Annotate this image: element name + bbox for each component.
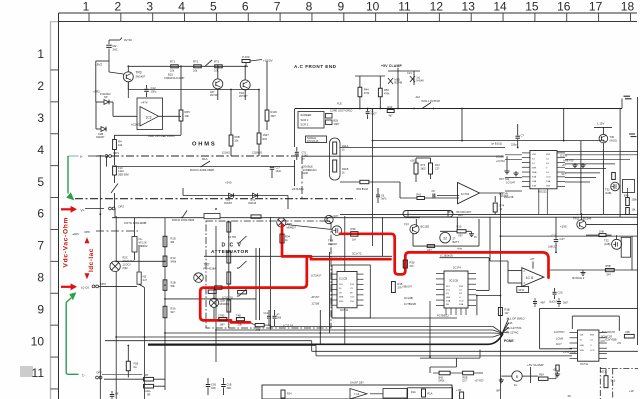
screen small boxes (326, 114, 333, 119)
op-amp IC6 input wires (508, 270, 522, 272)
svg-text:0uF2: 0uF2 (381, 198, 387, 201)
svg-text:10k: 10k (170, 69, 175, 73)
divider resistor R1D top (163, 236, 167, 247)
svg-text:D3A: D3A (546, 180, 551, 183)
svg-text:1NA: 1NA (532, 180, 537, 183)
wire x632 stub (631, 236, 633, 270)
svg-text:OC?11: OC?11 (580, 362, 589, 366)
IC3 loop wires above package (572, 315, 619, 317)
green arrowhead LO up (69, 292, 76, 300)
divider resistor R1A (163, 306, 167, 318)
svg-text:C4 T84: C4 T84 (228, 236, 236, 239)
wire range row y166.5 (113, 166, 295, 168)
ground on RAG wire (582, 271, 584, 273)
wire bus y140.6 (373, 140, 602, 142)
svg-text:F1B: F1B (134, 362, 139, 366)
resistor R34 on red path (280, 234, 284, 243)
wire OHMS top rail y66.3 (128, 65, 248, 67)
svg-text:+5V2: +5V2 (410, 160, 417, 163)
svg-text:BATT: BATT (453, 240, 460, 244)
svg-text:+Ha: +Ha (457, 247, 462, 251)
svg-text:2u?: 2u? (143, 278, 148, 282)
svg-text:R1B: R1B (505, 308, 510, 312)
svg-text:0N RAG 2: 0N RAG 2 (572, 276, 585, 280)
svg-text:54?: 54? (607, 273, 612, 277)
wire vertical x382.5 (382, 217, 384, 256)
svg-text:1N4007: 1N4007 (96, 136, 105, 139)
misc bottom resistor R14 (281, 390, 285, 398)
resistor R43 (387, 110, 394, 113)
svg-text:C17: C17 (552, 234, 557, 238)
wire TR14 top stub (415, 219, 417, 226)
svg-text:9M: 9M (171, 240, 175, 244)
filter box on v+ bus (204, 214, 220, 219)
wire stub y358 right (420, 357, 480, 359)
svg-text:C2B: C2B (625, 331, 630, 334)
wire route y345.5 (148, 345, 316, 347)
transistor TR11 (577, 220, 586, 229)
resistor R11A (333, 142, 337, 154)
diode D4 (229, 193, 234, 198)
resistor R71 (171, 65, 179, 68)
svg-text:BC182: BC182 (421, 225, 430, 229)
svg-text:6: 6 (37, 207, 44, 221)
wire long bus y217.7 left (112, 217, 420, 219)
svg-text:R43: R43 (388, 105, 393, 109)
svg-text:1C12M: 1C12M (496, 156, 504, 159)
wire vertical x320 lower (319, 310, 321, 345)
resistor below IC10 (493, 203, 497, 212)
wire mA top y261.3 (116, 260, 165, 262)
svg-text:V-: V- (590, 345, 592, 347)
switch on bus right (183, 211, 187, 217)
svg-text:10u0: 10u0 (276, 170, 282, 173)
capacitor C17 (555, 217, 557, 239)
wire fan line1 y326.5 (271, 326, 493, 328)
resistor R50b lower (360, 180, 369, 183)
wire left pins to x505 (505, 154, 522, 156)
wire long bus y214.4 right (340, 213, 638, 215)
svg-text:1C 6: 1C 6 (526, 276, 534, 280)
svg-text:470k: 470k (364, 92, 370, 95)
ground bottom mid (500, 378, 502, 380)
svg-text:R5B: R5B (606, 264, 611, 268)
svg-text:27k: 27k (398, 286, 403, 290)
svg-text:37US B-45: 37US B-45 (307, 141, 319, 143)
capacitor C9 220p (517, 128, 519, 135)
resistor R21 redraw over red (219, 318, 227, 321)
wire diode rail (95, 102, 97, 129)
wire vertical x106 DP1 (106, 156, 108, 167)
op-amp IC10 triangle (458, 183, 480, 204)
svg-text:R14: R14 (287, 393, 292, 396)
resistor R19 (208, 290, 216, 293)
resistor R30 on red path (351, 232, 358, 237)
wire to +10/0V (250, 60, 262, 62)
svg-text:R1A: R1A (202, 157, 208, 161)
transistor R27 left edge (325, 215, 333, 223)
svg-text:V-: V- (546, 167, 548, 169)
resistor K1A (422, 389, 426, 397)
svg-text:24 DUM 1: 24 DUM 1 (292, 187, 304, 191)
capacitor near clamp box b (557, 301, 561, 303)
capacitor C1B a (207, 378, 209, 384)
svg-text:9: 9 (337, 0, 344, 14)
big rect bottom mid (408, 388, 453, 399)
wire route corner x316 (315, 346, 317, 356)
svg-text:11: 11 (398, 0, 411, 14)
svg-text:1CA/B: 1CA/B (556, 337, 563, 340)
resistor R41 feedback (417, 197, 425, 200)
wire vertical pair x256 (255, 248, 257, 320)
resistor R7 (144, 377, 154, 381)
resistor R72 (194, 65, 202, 68)
svg-text:3: 3 (37, 111, 44, 125)
svg-text:1N4148: 1N4148 (248, 203, 257, 205)
wire vertical x372.5 (372, 109, 374, 247)
svg-text:D13: D13 (458, 214, 463, 217)
svg-text:C2?: C2? (435, 167, 440, 170)
svg-text:R2C: R2C (123, 256, 128, 260)
battery test meter circle (440, 232, 451, 243)
svg-text:R30: R30 (410, 261, 415, 265)
svg-text:10: 10 (366, 0, 380, 14)
wire right edge x637.5 (637, 97, 639, 345)
wire divider tap y298.9 (165, 298, 256, 300)
resistor R05 (179, 110, 183, 121)
svg-text:1C12/1B: 1C12/1B (504, 196, 514, 199)
svg-text:2N140?: 2N140? (136, 75, 146, 79)
svg-text:D1?: D1? (463, 380, 468, 383)
svg-text:R34: R34 (285, 235, 290, 239)
svg-text:CO2: CO2 (459, 300, 464, 302)
svg-text:+1P: +1P (629, 389, 634, 393)
svg-text:2N?40?: 2N?40? (239, 95, 248, 98)
resistor R07 (257, 133, 261, 144)
svg-text:+3P 0V?: +3P 0V? (311, 297, 321, 299)
terminal DP3 (92, 285, 95, 288)
resistor R73 (215, 65, 223, 68)
wire IC3 out (159, 115, 182, 117)
diode C23 (96, 128, 101, 130)
resistor P-100 (242, 60, 250, 63)
svg-text:I+: I+ (80, 155, 83, 159)
wire vertical x457 (456, 217, 458, 230)
svg-text:MN4002: MN4002 (220, 302, 230, 306)
svg-text:V-: V- (459, 297, 461, 299)
svg-text:1(C)4/C1R: 1(C)4/C1R (601, 336, 613, 339)
svg-text:Idc-Iac: Idc-Iac (88, 248, 95, 272)
wire OHMS bottom rail y135.3 (115, 134, 182, 136)
svg-text:2: 2 (115, 0, 122, 14)
capacitor C10 on range row (270, 166, 275, 168)
svg-text:R1A: R1A (411, 391, 416, 394)
svg-text:1-: 1- (82, 374, 85, 378)
svg-text:TR6: TR6 (328, 239, 334, 243)
svg-text:ATTENUATOR: ATTENUATOR (211, 249, 249, 255)
IC4 package IC1CB (444, 271, 468, 308)
wire vertical x622 stub (621, 99, 623, 109)
border frame scan edge (gray) (50, 22, 52, 399)
svg-text:S1?: S1? (562, 173, 567, 176)
svg-text:1N6: 1N6 (277, 317, 282, 320)
svg-text:ALL OF SM1G: ALL OF SM1G (507, 317, 525, 321)
svg-text:R50: R50 (384, 88, 389, 92)
svg-text:8: 8 (37, 271, 44, 285)
svg-text:T4B: T4B (236, 313, 241, 317)
resistor R22 on Lo rail (236, 318, 244, 321)
transistor TR1 (213, 79, 223, 89)
wire route corner x311.7 (311, 341, 313, 352)
svg-text:2k0?: 2k0? (563, 302, 569, 305)
connector symbol right x632 (629, 133, 635, 135)
transistor TR13 fet (612, 239, 622, 249)
svg-text:10: 10 (31, 334, 45, 348)
svg-text:C4?: C4? (560, 237, 566, 241)
svg-text:+1W: +1W (456, 389, 462, 392)
svg-text:90k: 90k (171, 284, 176, 288)
resistor R18 between packages (392, 282, 396, 293)
svg-text:5: 5 (210, 0, 217, 14)
svg-text:C14: C14 (264, 312, 269, 315)
svg-text:3C1+T2: 3C1+T2 (352, 252, 362, 256)
svg-text:MN4007: MN4007 (328, 243, 338, 246)
resistor pair on bus y216 (251, 215, 261, 218)
svg-text:940k: 940k (171, 259, 177, 263)
resistor GALL (144, 384, 154, 388)
wire vertical x476.9 (476, 295, 478, 315)
svg-text:AC240?: AC240? (131, 122, 141, 126)
switch below R6 (114, 175, 116, 183)
svg-text:16: 16 (557, 0, 571, 14)
svg-text:+10/0V: +10/0V (263, 59, 273, 63)
svg-text:R5A: R5A (539, 374, 544, 377)
wire below OC111 y318 (332, 317, 457, 319)
svg-text:1N8: 1N8 (599, 229, 604, 233)
svg-text:▴AFC: ▴AFC (73, 232, 80, 236)
wire vertical x563.7 (563, 109, 565, 141)
fuse F1 body (137, 272, 141, 284)
svg-text:14: 14 (493, 0, 507, 14)
svg-text:2A2: 2A2 (113, 47, 118, 51)
wire vertical x116.2 mA rail (115, 216, 117, 261)
svg-text:V+: V+ (81, 208, 85, 212)
attenuator resistor R15 (227, 272, 231, 284)
svg-text:R30: R30 (351, 227, 356, 231)
svg-text:13: 13 (462, 0, 476, 14)
svg-text:R?1: R?1 (214, 60, 220, 64)
svg-text:7: 7 (37, 239, 44, 253)
svg-text:1C?2/4?: 1C?2/4? (506, 182, 516, 185)
box 3P11 below IC6 (517, 287, 529, 293)
red highlight path segment down-left loop (200, 257, 307, 322)
red highlight path segment TR5 branch (282, 225, 391, 260)
svg-text:MN4007: MN4007 (287, 226, 297, 229)
ruler left ticks (51, 69, 59, 71)
svg-text:1C22 T4: 1C22 T4 (283, 324, 293, 328)
svg-text:R7: R7 (145, 373, 149, 377)
svg-text:7-12: 7-12 (354, 392, 360, 396)
wire vertical x490 (489, 217, 491, 261)
svg-text:GA1N? DE?: GA1N? DE? (350, 382, 364, 385)
resistor R55A (255, 324, 264, 327)
attenuator switch contacts (239, 236, 247, 243)
svg-text:(W1G): (W1G) (610, 139, 618, 142)
svg-text:DOFO 1003-0903: DOFO 1003-0903 (172, 218, 195, 222)
svg-text:+C1?10: +C1?10 (496, 160, 505, 163)
svg-text:220p: 220p (511, 143, 517, 146)
diode C13 cross (410, 76, 415, 82)
svg-text:1M?: 1M? (220, 322, 226, 326)
section boundary vertical x302 (301, 156, 303, 199)
capacitor C1B b (223, 378, 225, 384)
terminal DP2 (109, 207, 112, 210)
svg-text:DP8: DP8 (85, 230, 91, 234)
svg-text:C13: C13 (407, 72, 412, 75)
svg-text:1C?2A/1?: 1C?2A/1? (311, 275, 322, 278)
resistor B42 (439, 371, 450, 375)
svg-text:L0 C0: L0 C0 (81, 286, 89, 290)
transistor TR6 fet (332, 226, 342, 236)
svg-text:CALL: CALL (145, 389, 152, 393)
svg-text:QuO1?: QuO1? (549, 301, 558, 304)
fuse F1 upper (132, 237, 137, 253)
svg-text:CO2: CO2 (590, 350, 595, 352)
wire x114.5 down to switch (114, 150, 116, 166)
wire bus y147.5 (340, 147, 505, 149)
attenuator resistor R16b (227, 300, 231, 312)
package bottom pin wires (445, 308, 447, 315)
svg-text:YB?: YB? (458, 234, 463, 237)
svg-text:DP?: DP? (97, 371, 103, 375)
svg-text:SK3: SK3 (611, 380, 616, 383)
svg-text:R18: R18 (398, 282, 403, 286)
wire main AC bus y108.5 (295, 108, 622, 110)
resistor R20 (238, 291, 247, 294)
svg-text:R10: R10 (457, 224, 462, 228)
svg-text:R1A: R1A (171, 307, 176, 311)
svg-text:100k: 100k (632, 199, 638, 202)
resistor R22 redraw over red (236, 318, 244, 321)
svg-text:SHA: SHA (339, 296, 344, 299)
connector symbol top right (624, 95, 631, 97)
svg-text:C?4: C?4 (251, 199, 256, 202)
svg-text:33k?: 33k? (271, 115, 277, 118)
svg-text:10k: 10k (118, 143, 123, 147)
wire battery row y246.1 (413, 245, 479, 247)
red arrowhead up Idc (85, 237, 90, 243)
svg-text:(A1B): (A1B) (604, 243, 611, 246)
resistor R31 on red jog (215, 286, 223, 290)
svg-text:R05: R05 (185, 110, 191, 114)
svg-text:4C1/4B: 4C1/4B (404, 296, 413, 300)
resistor R5B (463, 371, 474, 375)
resistor R32 redraw over red (403, 260, 407, 268)
attenuator ladder rail (228, 221, 230, 328)
clamp rail (388, 70, 420, 72)
svg-text:R50 BV34: R50 BV34 (357, 188, 369, 191)
svg-text:(or B1G2): (or B1G2) (491, 143, 502, 146)
section boundary OHMS (dash-dot) (96, 155, 302, 157)
svg-text:DR0L: DR0L (439, 380, 446, 383)
transistor TR14 BC182 (410, 225, 419, 234)
current source meter circle (512, 371, 522, 381)
wire top right y151.4 (557, 150, 638, 152)
svg-text:R27: R27 (334, 214, 339, 218)
svg-text:S1NGLE: S1NGLE (307, 138, 317, 140)
svg-text:SCREEN: SCREEN (301, 113, 312, 117)
svg-text:DP2: DP2 (101, 282, 107, 286)
resistor R4 (113, 140, 117, 150)
svg-text:34D: 34D (211, 387, 216, 390)
wire OHMS left edge x95.8 (95, 61, 97, 102)
svg-text:3: 3 (146, 0, 153, 14)
capacitor C2 top-left (108, 40, 110, 44)
svg-text:3R: 3R (147, 392, 150, 396)
svg-text:R11A: R11A (342, 144, 349, 148)
svg-text:R0B: R0B (235, 135, 240, 139)
svg-text:+5?: +5? (562, 164, 567, 167)
resistor R11B (333, 160, 337, 172)
svg-text:C?: C? (521, 134, 525, 138)
svg-text:+C3V?/1BB: +C3V?/1BB (605, 340, 618, 342)
capacitor C6 (377, 188, 379, 194)
svg-text:C8: C8 (115, 392, 119, 396)
wire route y355.9 (316, 355, 572, 357)
green routing line down to V+ (67, 156, 69, 194)
resistor R32 (403, 260, 407, 268)
ground near R10 (471, 232, 473, 234)
svg-text:CO?O 1003-900B: CO?O 1003-900B (124, 221, 147, 225)
svg-text:FLE: FLE (337, 102, 342, 106)
resistor R21 on Lo rail (219, 318, 227, 321)
svg-text:CORGPOLO-0O8T: CORGPOLO-0O8T (164, 77, 185, 80)
svg-text:R1C: R1C (171, 256, 176, 260)
svg-text:0V: 0V (474, 236, 477, 239)
svg-text:S1A: S1A (532, 176, 537, 179)
svg-text:+29S: +29S (560, 225, 567, 229)
IC7 block rect (262, 385, 452, 399)
svg-text:18: 18 (621, 0, 635, 14)
svg-text:1N6?: 1N6? (334, 123, 340, 126)
svg-text:1: 1 (83, 0, 90, 14)
svg-text:S1A: S1A (580, 349, 585, 352)
svg-text:+5V CLAMP: +5V CLAMP (527, 363, 544, 367)
svg-text:CORE LOO?-GR1D: CORE LOO?-GR1D (330, 110, 353, 113)
svg-text:T30: T30 (610, 135, 615, 139)
svg-text:(A1B): (A1B) (605, 192, 612, 195)
capacitor C25 below IC6 (554, 288, 556, 292)
transistor TR2 (240, 80, 250, 90)
svg-text:1C1B2k/26: 1C1B2k/26 (440, 253, 453, 257)
svg-text:1.15V: 1.15V (597, 122, 604, 126)
svg-text:S1B: S1B (532, 186, 537, 188)
svg-text:N3: N3 (143, 275, 147, 279)
svg-text:4k7: 4k7 (389, 115, 394, 118)
wire vertical x345 (344, 216, 346, 345)
svg-text:1C?10: 1C?10 (461, 192, 470, 196)
fuse F1B (126, 361, 130, 371)
capacitor C8 bottom left (111, 391, 113, 394)
svg-text:SH 127?OS: SH 127?OS (507, 326, 522, 330)
svg-text:P-100: P-100 (242, 55, 250, 59)
wire vertical x100.3 (99, 155, 101, 399)
svg-text:B: B (516, 375, 518, 379)
svg-text:T32: T32 (605, 188, 610, 192)
resistor SK3 (604, 376, 608, 388)
svg-text:PONE: PONE (504, 339, 514, 343)
transistor TR9 top (599, 134, 608, 143)
